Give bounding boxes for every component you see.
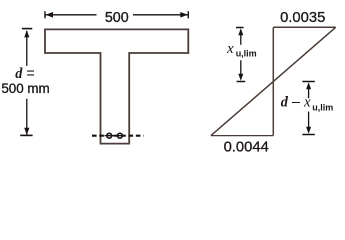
svg-text:u,lim: u,lim [236,49,257,59]
left depth dimension d: top tick [22,28,32,30]
d minus x_u,lim dimension: up arrowhead [306,82,311,89]
d minus x_u,lim dimension: label [281,95,334,113]
svg-text:0.0035: 0.0035 [280,10,325,26]
svg-text:500: 500 [105,10,129,26]
strain diagram: vertical axis line [272,27,274,135]
x_u,lim dimension: up arrowhead [238,28,243,35]
T-beam cross-section outline [45,29,188,143]
strain diagram: bottom strain line [211,135,273,137]
reinforcement centroid dashed line [92,135,144,137]
strain diagram: bottom strain value 0.0044 [224,139,269,155]
d minus x_u,lim dimension: top tick [302,81,315,83]
top width dimension 500: left arrowhead [46,12,53,18]
left depth dimension d: up arrowhead [24,30,29,37]
svg-text:d =: d = [15,66,34,82]
strain diagram: diagonal strain profile [211,27,336,135]
svg-text:0.0044: 0.0044 [224,139,269,155]
top width dimension 500: end ticks [45,11,188,18]
x_u,lim dimension: bottom tick [237,81,246,83]
x_u,lim dimension: down arrowhead [238,74,243,81]
rebar circle 1 [107,133,112,138]
rebar solid link line [105,135,125,137]
left depth dimension d: down arrowhead [24,128,29,135]
d minus x_u,lim dimension: down arrowhead [306,127,311,134]
svg-text:u,lim: u,lim [312,102,333,112]
left depth dimension d: line [26,31,28,135]
left depth dimension d: label line 1 "d =" [15,66,34,82]
x_u,lim dimension: label [226,41,257,59]
strain diagram: top strain value 0.0035 [280,10,325,26]
svg-text:d–x: d–x [281,95,311,111]
d minus x_u,lim dimension: line [308,86,310,129]
left depth dimension d: label line 2 "500 mm" [1,81,49,96]
left depth dimension d: bottom tick [20,134,32,136]
strain diagram: top strain line [273,26,335,28]
x_u,lim dimension: line [240,33,242,76]
top width dimension 500: value label [105,10,129,26]
d minus x_u,lim dimension: bottom tick [302,134,315,136]
svg-text:500 mm: 500 mm [1,81,49,96]
top width dimension 500: right arrowhead [180,12,187,18]
top width dimension 500: line [45,14,188,16]
svg-text:x: x [226,41,234,57]
rebar circles white cores [107,133,122,138]
x_u,lim dimension: top tick [236,27,244,29]
rebar circle 2 [118,133,123,138]
